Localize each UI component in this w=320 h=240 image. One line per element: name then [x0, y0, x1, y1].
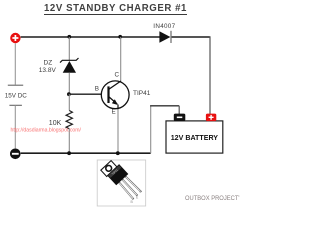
svg-text:http://dasdiarma.blogspot.com/: http://dasdiarma.blogspot.com/ — [11, 128, 82, 134]
svg-text:10K: 10K — [49, 120, 62, 127]
svg-text:12V BATTERY: 12V BATTERY — [171, 134, 219, 142]
zener DZ 13.8V — [39, 58, 79, 74]
node base junction — [67, 92, 71, 96]
svg-text:15V DC: 15V DC — [5, 93, 28, 100]
svg-text:DZ: DZ — [44, 59, 53, 66]
wire battery negative horizontal — [150, 105, 179, 107]
wire bottom rail — [21, 152, 151, 154]
wire top rail right — [171, 36, 210, 38]
node zener top — [67, 35, 71, 39]
15V DC source — [5, 43, 28, 148]
terminal - (15V DC negative) — [10, 149, 21, 160]
terminal + (15V DC positive) — [10, 33, 20, 43]
svg-text:OUTBOX PROJECT': OUTBOX PROJECT' — [185, 196, 240, 202]
wire battery negative riser — [150, 106, 152, 153]
node emitter bottom — [116, 151, 120, 155]
svg-text:13.8V: 13.8V — [39, 67, 57, 74]
wire battery negative drop — [178, 106, 180, 114]
title — [44, 3, 187, 15]
resistor R1 10K — [49, 94, 73, 153]
TIP41 package photo frame — [97, 158, 146, 206]
svg-text:B: B — [95, 85, 99, 92]
wire base — [69, 93, 108, 95]
battery BT1 12V — [166, 114, 223, 154]
node collector top — [118, 35, 122, 39]
svg-text:E: E — [112, 109, 116, 116]
diode D1 IN4007 — [153, 23, 175, 43]
node resistor bottom — [67, 151, 71, 155]
transistor Q1 TIP41 — [101, 81, 129, 109]
wire zener top — [68, 37, 70, 60]
wire zener to base node — [68, 73, 70, 95]
svg-text:IN4007: IN4007 — [153, 23, 175, 30]
svg-text:C: C — [115, 71, 120, 78]
wire battery positive drop — [209, 37, 211, 115]
svg-text:12V STANDBY CHARGER #1: 12V STANDBY CHARGER #1 — [44, 3, 187, 14]
wire collector — [120, 37, 122, 82]
svg-text:TIP41: TIP41 — [133, 90, 151, 97]
wire top rail left — [21, 36, 160, 38]
wire emitter — [117, 105, 119, 153]
